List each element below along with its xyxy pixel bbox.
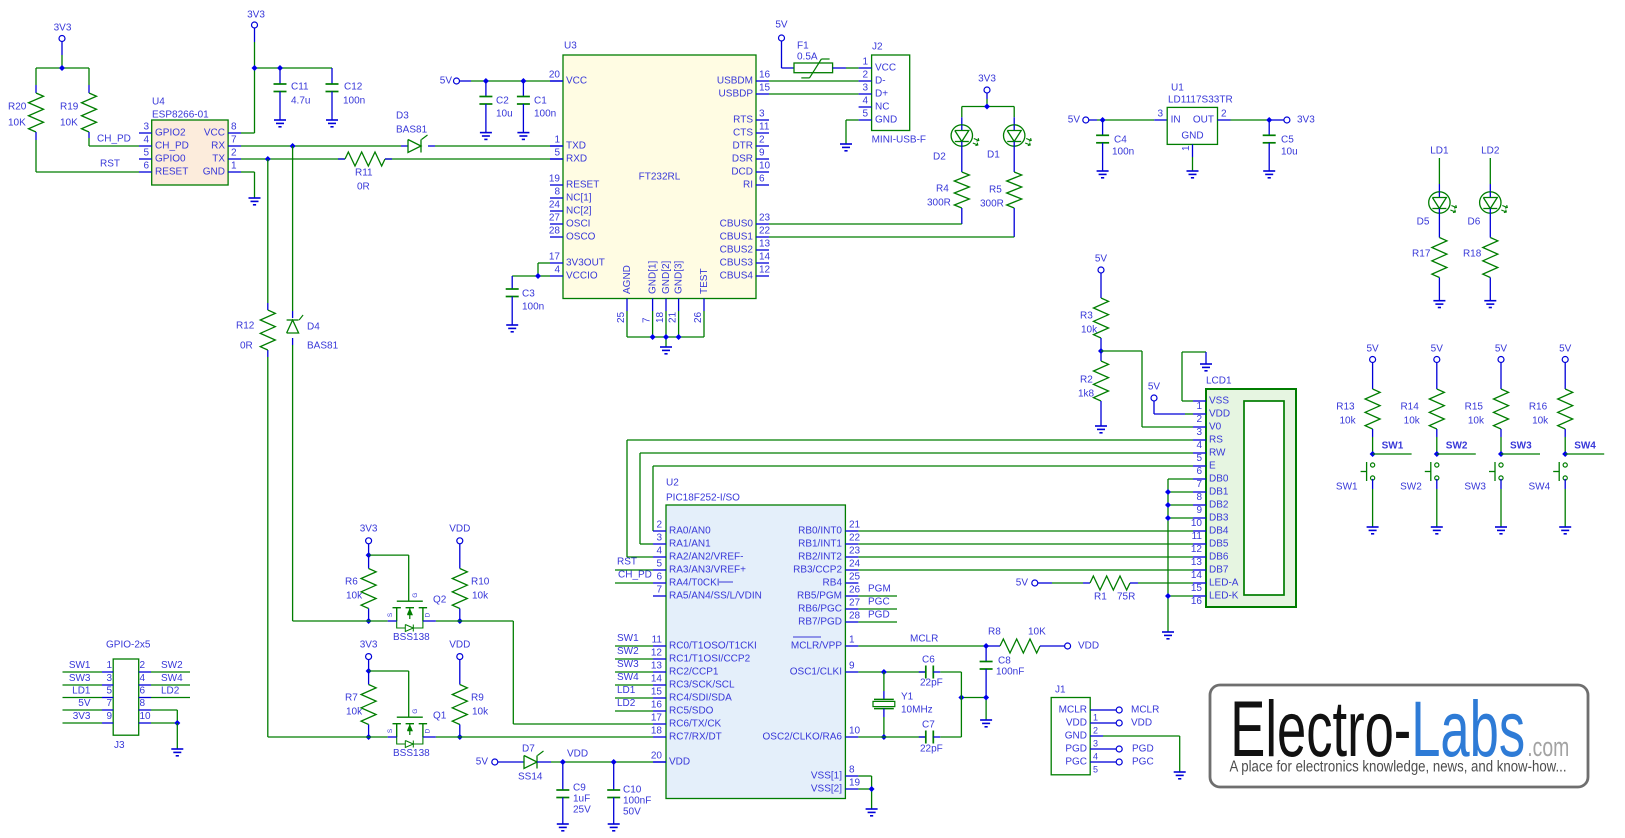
svg-text:17: 17 — [549, 252, 561, 263]
wire VDD rail — [537, 749, 666, 766]
svg-text:18: 18 — [655, 311, 666, 323]
ground (oscillator) — [980, 720, 992, 727]
power 5V (USB) — [775, 20, 788, 42]
wire J1 PGD — [1103, 744, 1154, 755]
svg-text:CBUS0: CBUS0 — [720, 219, 754, 230]
wire LCD RW to U2 RA1 — [640, 453, 1193, 544]
svg-text:R18: R18 — [1463, 249, 1482, 260]
svg-text:100n: 100n — [1112, 147, 1134, 158]
svg-text:DB6: DB6 — [1209, 552, 1229, 563]
wire LCD VSS to ground — [1182, 352, 1206, 401]
svg-text:A place for electronics knowle: A place for electronics knowledge, news,… — [1230, 759, 1567, 776]
wire SW1 net stub — [1373, 441, 1412, 455]
svg-text:19: 19 — [849, 778, 861, 789]
svg-text:10K: 10K — [60, 118, 78, 129]
svg-text:SW4: SW4 — [1574, 441, 1596, 452]
svg-text:6: 6 — [759, 174, 765, 185]
svg-text:S: S — [387, 612, 394, 617]
svg-text:RESET: RESET — [155, 167, 188, 178]
net label LD2 — [1481, 146, 1500, 157]
switch SW4 — [1529, 462, 1568, 493]
svg-text:LD1: LD1 — [72, 686, 91, 697]
svg-text:D6: D6 — [1468, 217, 1481, 228]
svg-text:1uF: 1uF — [573, 794, 590, 805]
svg-text:DSR: DSR — [732, 154, 753, 165]
svg-text:F1: F1 — [797, 41, 809, 52]
svg-text:3: 3 — [1093, 739, 1098, 749]
svg-text:7: 7 — [656, 585, 662, 596]
svg-text:9: 9 — [849, 661, 855, 672]
svg-text:20: 20 — [651, 751, 663, 762]
svg-text:8: 8 — [849, 765, 855, 776]
ground (SW1) — [1367, 527, 1379, 534]
power VDD (R10) — [449, 524, 470, 544]
ground (R18) — [1484, 301, 1496, 308]
svg-text:10u: 10u — [1281, 147, 1298, 158]
svg-text:VSS[2]: VSS[2] — [811, 784, 842, 795]
svg-text:PGC: PGC — [1065, 757, 1087, 768]
svg-text:RB4: RB4 — [823, 578, 843, 589]
LED D5 — [1417, 192, 1457, 228]
svg-text:1: 1 — [862, 57, 868, 68]
ground (LCD VSS) — [1200, 364, 1212, 371]
power VDD (R9) — [449, 640, 470, 660]
svg-text:1: 1 — [849, 635, 855, 646]
svg-text:5V: 5V — [476, 757, 489, 768]
svg-text:RI: RI — [743, 180, 753, 191]
svg-text:SW4: SW4 — [617, 672, 639, 683]
crystal Y1 10MHz — [873, 672, 933, 740]
svg-text:GND: GND — [1181, 131, 1203, 142]
svg-text:J1: J1 — [1055, 685, 1066, 696]
svg-text:VDD: VDD — [1131, 718, 1152, 729]
svg-text:11: 11 — [1192, 531, 1203, 542]
svg-text:Y1: Y1 — [901, 692, 914, 703]
svg-text:10K: 10K — [8, 118, 26, 129]
svg-text:R3: R3 — [1080, 311, 1093, 322]
resistor R5 300R — [980, 146, 1022, 237]
svg-text:2: 2 — [1221, 109, 1227, 120]
svg-text:27: 27 — [849, 598, 861, 609]
switch SW2 — [1400, 462, 1439, 493]
svg-text:6: 6 — [140, 686, 146, 697]
wire J3 pin8/pin10 to ground — [174, 710, 180, 749]
resistor R18 — [1463, 213, 1498, 301]
svg-text:S: S — [387, 728, 394, 733]
wire SW2 to ground — [1436, 479, 1438, 527]
svg-text:C1: C1 — [534, 96, 547, 107]
svg-text:11: 11 — [652, 635, 663, 646]
net labels PGM PGC PGD on U2 — [858, 584, 897, 623]
svg-text:100n: 100n — [522, 302, 544, 313]
svg-text:SW3: SW3 — [69, 673, 91, 684]
resistor R14 10k — [1400, 363, 1444, 458]
svg-text:VCC: VCC — [566, 76, 587, 87]
svg-text:OSC1/CLKI: OSC1/CLKI — [790, 667, 842, 678]
wire SW4 to ground — [1564, 479, 1566, 527]
svg-text:U3: U3 — [564, 41, 577, 52]
resistor R2 1k8 — [1078, 351, 1109, 426]
wire LCD E to U2 RA0 — [653, 466, 1193, 531]
svg-text:25: 25 — [616, 311, 627, 323]
svg-text:13: 13 — [1191, 557, 1203, 568]
svg-text:RTS: RTS — [733, 115, 753, 126]
wire SW1 to ground — [1372, 479, 1374, 527]
svg-text:TEST: TEST — [699, 268, 710, 294]
svg-text:E: E — [1209, 461, 1216, 472]
svg-text:TXD: TXD — [566, 141, 586, 152]
svg-text:17: 17 — [651, 713, 663, 724]
svg-text:G: G — [412, 593, 419, 598]
LED D6 — [1468, 192, 1508, 228]
IC U3 FT232RL — [549, 41, 771, 324]
capacitor C1 100n — [517, 81, 556, 133]
svg-text:SW4: SW4 — [161, 673, 183, 684]
svg-text:5V: 5V — [440, 76, 453, 87]
svg-text:5V: 5V — [1068, 115, 1081, 126]
wire OSC2 to C7 — [858, 736, 925, 738]
svg-text:15: 15 — [651, 687, 663, 698]
ground (R17) — [1433, 301, 1445, 308]
svg-text:SW2: SW2 — [1446, 441, 1468, 452]
wire Q1 drain to U2 RC7 — [436, 736, 653, 738]
svg-text:GPIO0: GPIO0 — [155, 154, 186, 165]
svg-text:D4: D4 — [307, 322, 320, 333]
svg-text:R14: R14 — [1400, 402, 1419, 413]
svg-text:13: 13 — [651, 661, 663, 672]
svg-text:SS14: SS14 — [518, 772, 543, 783]
wire LD1 to LED — [1438, 158, 1440, 192]
diode D4 BAS81 — [287, 315, 339, 352]
svg-text:10k: 10k — [1532, 416, 1549, 427]
svg-text:CTS: CTS — [733, 128, 753, 139]
svg-text:SW2: SW2 — [161, 660, 183, 671]
svg-text:DB5: DB5 — [1209, 539, 1229, 550]
wire J1 MCLR — [1103, 705, 1159, 716]
svg-text:DB1: DB1 — [1209, 487, 1229, 498]
svg-text:5: 5 — [143, 148, 149, 159]
svg-text:10k: 10k — [472, 707, 489, 718]
wire USBDM to J2 D- — [769, 80, 859, 82]
svg-text:BSS138: BSS138 — [393, 748, 430, 759]
resistor R9 10k — [452, 660, 489, 740]
svg-text:RB1/INT1: RB1/INT1 — [798, 539, 842, 550]
svg-text:VDD: VDD — [1066, 718, 1087, 729]
svg-text:18: 18 — [651, 726, 663, 737]
svg-text:300R: 300R — [927, 198, 951, 209]
svg-text:SW2: SW2 — [617, 646, 639, 657]
svg-text:5V: 5V — [1366, 344, 1379, 355]
svg-text:AGND: AGND — [622, 265, 633, 294]
svg-text:3: 3 — [1196, 427, 1202, 438]
capacitor C7 22pF — [919, 720, 962, 755]
svg-text:LED-A: LED-A — [1209, 578, 1239, 589]
ground (U1) — [1187, 171, 1199, 178]
power 5V (LCD backlight) — [1016, 578, 1038, 589]
svg-text:C3: C3 — [522, 289, 535, 300]
svg-text:23: 23 — [759, 213, 771, 224]
wire U3 ground pins to common ground — [627, 311, 704, 347]
svg-text:3V3OUT: 3V3OUT — [566, 258, 605, 269]
svg-text:4: 4 — [862, 96, 868, 107]
svg-text:C7: C7 — [922, 720, 935, 731]
svg-text:25: 25 — [849, 572, 861, 583]
svg-text:CBUS2: CBUS2 — [720, 245, 754, 256]
ground (SW2) — [1431, 527, 1443, 534]
svg-text:DB0: DB0 — [1209, 474, 1229, 485]
svg-text:DB2: DB2 — [1209, 500, 1229, 511]
svg-text:VDD: VDD — [1078, 641, 1099, 652]
svg-text:3: 3 — [1157, 109, 1163, 120]
svg-text:11: 11 — [759, 122, 770, 133]
svg-text:5: 5 — [554, 148, 560, 159]
svg-text:10k: 10k — [346, 707, 363, 718]
svg-text:2: 2 — [1196, 414, 1202, 425]
power 3V3 (R19/R20 pull-ups) — [54, 23, 72, 42]
power 5V (SW1) — [1366, 344, 1379, 363]
wire LCD DB0-DB3 to ground — [1165, 479, 1193, 632]
svg-text:VCC: VCC — [875, 63, 896, 74]
svg-text:100nF: 100nF — [996, 667, 1024, 678]
svg-text:25V: 25V — [573, 805, 591, 816]
svg-text:D: D — [424, 612, 431, 617]
svg-text:1: 1 — [1196, 401, 1202, 412]
svg-text:26: 26 — [849, 585, 861, 596]
wire J1 PGC — [1103, 757, 1154, 768]
power 3V3 (Q1 gate) — [360, 640, 378, 660]
wire ESP GND — [241, 172, 255, 198]
wire 3V3 to R7/gate — [366, 660, 409, 717]
svg-text:12: 12 — [651, 648, 663, 659]
svg-text:10K: 10K — [1028, 627, 1046, 638]
svg-text:28: 28 — [549, 226, 561, 237]
wire fuse to J2 VCC — [833, 67, 859, 69]
wire ESP TX to R11 — [241, 156, 563, 162]
svg-text:RXD: RXD — [566, 154, 587, 165]
svg-text:8: 8 — [1196, 492, 1202, 503]
svg-text:VDD: VDD — [449, 524, 470, 535]
svg-text:4: 4 — [143, 135, 149, 146]
svg-text:R16: R16 — [1529, 402, 1548, 413]
svg-text:GND: GND — [203, 167, 225, 178]
wire SW4 net stub — [1565, 441, 1604, 455]
svg-text:R4: R4 — [936, 184, 949, 195]
wire SW3 net stub — [1501, 441, 1540, 455]
ground (SW3) — [1495, 527, 1507, 534]
svg-text:5V: 5V — [1016, 578, 1029, 589]
svg-text:C11: C11 — [291, 82, 309, 93]
power VDD (MCLR pull-up) — [1065, 641, 1100, 652]
ground (U3) — [660, 347, 672, 354]
svg-text:2: 2 — [862, 70, 868, 81]
wire 3V3OUT to VCCIO and C3 — [512, 263, 550, 279]
svg-text:26: 26 — [693, 311, 704, 323]
svg-text:19: 19 — [549, 174, 561, 185]
svg-text:15: 15 — [1191, 583, 1203, 594]
svg-text:R9: R9 — [471, 693, 484, 704]
svg-text:6: 6 — [1196, 466, 1202, 477]
svg-text:50V: 50V — [623, 807, 641, 818]
svg-text:DTR: DTR — [732, 141, 753, 152]
capacitor C5 10u — [1263, 120, 1298, 171]
svg-text:U4: U4 — [152, 97, 165, 108]
wire 5V to U1 IN — [1089, 117, 1167, 123]
svg-text:GND[3]: GND[3] — [674, 260, 685, 294]
svg-text:PGD: PGD — [1065, 744, 1087, 755]
svg-text:R20: R20 — [8, 102, 27, 113]
resistor R10 10k — [452, 544, 489, 624]
ground (LCD data/backlight) — [1162, 632, 1174, 639]
diode D7 SS14 — [518, 744, 544, 783]
resistor R8 10K — [986, 627, 1065, 654]
resistor R19 10K — [60, 68, 139, 146]
svg-text:10k: 10k — [472, 591, 489, 602]
svg-text:RC5/SDO: RC5/SDO — [669, 706, 714, 717]
svg-text:D1: D1 — [987, 150, 1000, 161]
svg-text:RST: RST — [100, 159, 120, 170]
svg-text:2: 2 — [140, 660, 146, 671]
svg-text:PGD: PGD — [1132, 744, 1154, 755]
svg-text:J2: J2 — [872, 42, 883, 53]
svg-text:10: 10 — [759, 161, 771, 172]
svg-text:RST: RST — [617, 557, 637, 568]
svg-text:5V: 5V — [1431, 344, 1444, 355]
svg-text:LD1: LD1 — [617, 685, 636, 696]
svg-text:CH_PD: CH_PD — [618, 570, 652, 581]
LED D2 — [933, 125, 979, 163]
svg-text:3: 3 — [656, 533, 662, 544]
wire R4 to CBUS0 — [769, 223, 962, 225]
svg-text:1: 1 — [1093, 713, 1098, 723]
svg-text:7: 7 — [231, 135, 237, 146]
svg-text:5V: 5V — [1148, 382, 1161, 393]
svg-text:USBDP: USBDP — [719, 89, 754, 100]
svg-text:SW1: SW1 — [69, 660, 91, 671]
svg-text:22pF: 22pF — [920, 678, 943, 689]
svg-text:CH_PD: CH_PD — [155, 141, 189, 152]
svg-text:13: 13 — [759, 239, 771, 250]
svg-text:4: 4 — [554, 265, 560, 276]
svg-text:GND: GND — [1065, 731, 1087, 742]
svg-text:LD2: LD2 — [161, 686, 180, 697]
wire LCD RS to U2 RA2 — [627, 440, 1193, 557]
svg-text:D: D — [424, 728, 431, 733]
transistor Q1 BSS138 — [387, 709, 447, 759]
svg-text:C12: C12 — [344, 82, 363, 93]
svg-text:2: 2 — [231, 148, 237, 159]
svg-text:D+: D+ — [875, 89, 888, 100]
ground (C11) — [274, 120, 286, 127]
svg-text:16: 16 — [759, 70, 771, 81]
svg-text:IN: IN — [1171, 115, 1181, 126]
svg-text:3V3: 3V3 — [360, 524, 378, 535]
svg-text:VDD: VDD — [567, 749, 588, 760]
ground (J3) — [171, 749, 183, 756]
svg-text:28: 28 — [849, 611, 861, 622]
svg-text:CH_PD: CH_PD — [97, 134, 131, 145]
svg-text:SW3: SW3 — [617, 659, 639, 670]
svg-text:SW1: SW1 — [617, 633, 639, 644]
svg-text:2: 2 — [759, 135, 765, 146]
ground (ESP GND) — [249, 198, 261, 205]
wire 5V to D7 — [498, 761, 524, 763]
wire ESP RX to U3 TXD — [241, 143, 563, 149]
svg-text:SW3: SW3 — [1510, 441, 1532, 452]
svg-text:100n: 100n — [343, 96, 365, 107]
wire 5V to fuse F1 — [782, 41, 795, 68]
svg-text:5V: 5V — [775, 20, 788, 31]
svg-text:22: 22 — [849, 533, 861, 544]
svg-text:C6: C6 — [922, 655, 935, 666]
fuse F1 0.5A — [794, 41, 833, 78]
svg-text:TX: TX — [212, 154, 225, 165]
svg-text:3V3: 3V3 — [360, 640, 378, 651]
wire 3V3 to D1 D2 — [962, 93, 1014, 125]
IC U4 ESP8266-01 — [139, 97, 241, 186]
svg-text:VCCIO: VCCIO — [566, 271, 598, 282]
net label CH_PD — [97, 134, 131, 145]
svg-text:3: 3 — [759, 109, 765, 120]
ground (C4) — [1097, 171, 1109, 178]
svg-text:C10: C10 — [623, 785, 642, 796]
svg-text:LD1: LD1 — [1430, 146, 1449, 157]
wire SW2 net stub — [1437, 441, 1476, 455]
svg-text:D7: D7 — [522, 744, 535, 755]
svg-text:4: 4 — [140, 673, 146, 684]
power 3V3 (regulator output) — [1284, 115, 1315, 126]
svg-text:4: 4 — [1196, 440, 1202, 451]
svg-text:PGD: PGD — [868, 610, 890, 621]
svg-text:GND[2]: GND[2] — [661, 260, 672, 294]
power 5V (regulator input) — [1068, 115, 1089, 126]
resistor R15 10k — [1465, 363, 1509, 458]
svg-text:CBUS1: CBUS1 — [720, 232, 754, 243]
svg-text:1: 1 — [1181, 145, 1192, 151]
svg-text:.com: .com — [1527, 732, 1569, 762]
svg-text:RB7/PGD: RB7/PGD — [798, 617, 842, 628]
svg-text:5V: 5V — [1559, 344, 1572, 355]
svg-text:14: 14 — [651, 674, 663, 685]
svg-text:LED-K: LED-K — [1209, 591, 1239, 602]
svg-text:8: 8 — [231, 122, 237, 133]
svg-text:12: 12 — [1191, 544, 1203, 555]
svg-text:D-: D- — [875, 76, 886, 87]
svg-text:RB6/PGC: RB6/PGC — [798, 604, 842, 615]
power 5V (SW3) — [1495, 344, 1508, 363]
svg-text:LD1117S33TR: LD1117S33TR — [1168, 95, 1233, 106]
wire J2 GND — [846, 120, 859, 144]
ground (C5) — [1263, 171, 1275, 178]
svg-text:PGC: PGC — [868, 597, 890, 608]
svg-text:3V3: 3V3 — [1297, 115, 1315, 126]
svg-text:DB4: DB4 — [1209, 526, 1229, 537]
LED D1 — [987, 125, 1031, 161]
svg-text:20: 20 — [549, 70, 561, 81]
svg-text:LD2: LD2 — [617, 698, 636, 709]
svg-text:BAS81: BAS81 — [396, 125, 428, 136]
svg-text:FT232RL: FT232RL — [639, 172, 681, 183]
svg-text:SW1: SW1 — [1382, 441, 1404, 452]
ground (R2) — [1095, 426, 1107, 433]
wire U2 VSS to ground — [858, 776, 874, 809]
svg-text:U2: U2 — [666, 478, 679, 489]
wire OSC1 to C6/Y1 — [858, 669, 925, 675]
capacitor C9 1uF 25V — [556, 762, 591, 824]
svg-text:5V: 5V — [1495, 344, 1508, 355]
svg-text:10u: 10u — [496, 109, 513, 120]
ground (J2) — [840, 144, 852, 151]
svg-text:V0: V0 — [1209, 422, 1222, 433]
